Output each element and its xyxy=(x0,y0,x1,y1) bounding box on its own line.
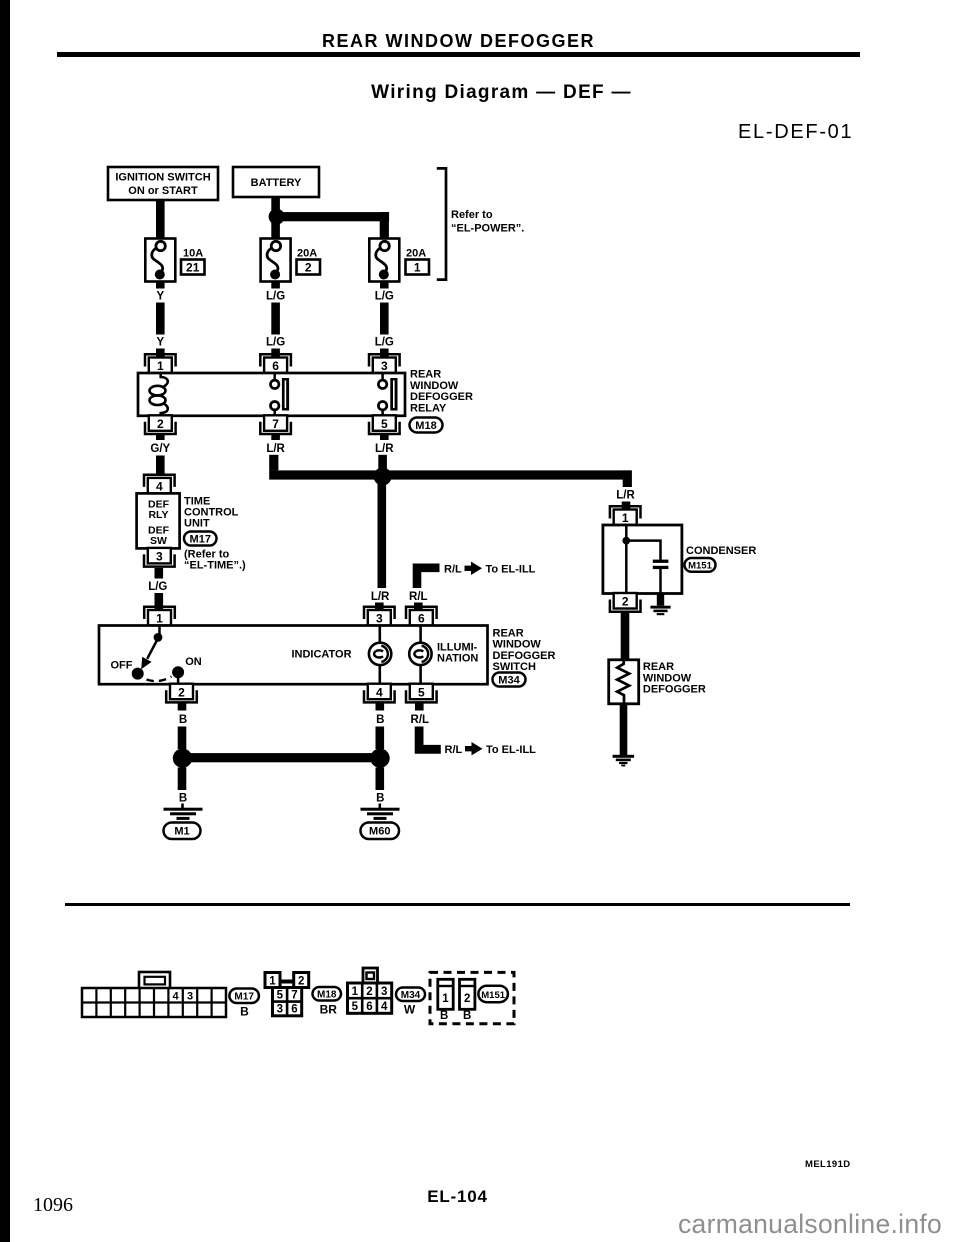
wire B right to junction xyxy=(376,727,385,750)
svg-text:1: 1 xyxy=(442,993,449,1005)
ground condenser xyxy=(650,606,670,615)
svg-text:2: 2 xyxy=(464,993,470,1005)
svg-text:BATTERY: BATTERY xyxy=(251,177,302,189)
wire label G/Y xyxy=(150,443,170,455)
wire label B left xyxy=(179,714,187,726)
illumination lamp xyxy=(409,643,431,665)
svg-text:B: B xyxy=(376,714,384,726)
svg-text:B: B xyxy=(376,793,384,805)
svg-text:3: 3 xyxy=(376,612,383,626)
wire R/L elbow to EL-ILL lower xyxy=(419,727,441,750)
wire elbow down to fuse 1 xyxy=(380,212,389,238)
wire junction left to ground xyxy=(178,768,187,791)
svg-text:RLY: RLY xyxy=(148,509,168,521)
svg-text:UNIT: UNIT xyxy=(184,517,210,529)
svg-text:DEFOGGER: DEFOGGER xyxy=(410,391,473,403)
wire L/R pin7 elbow to bus xyxy=(269,455,278,471)
svg-text:4: 4 xyxy=(173,991,180,1003)
EL-POWER reference bracket xyxy=(437,168,446,279)
wire junction to fuse 2 xyxy=(271,221,280,238)
svg-text:ON: ON xyxy=(185,656,202,668)
wire label L/G lower xyxy=(266,337,285,349)
svg-text:3: 3 xyxy=(156,550,163,564)
svg-text:M18: M18 xyxy=(415,420,436,432)
relay pin 5 xyxy=(369,415,400,434)
wire label L/G right column xyxy=(375,291,394,303)
switch OFF label xyxy=(111,660,133,672)
relay U1 box xyxy=(138,373,405,416)
svg-text:L/R: L/R xyxy=(375,443,394,455)
connector M151 dashed box xyxy=(430,972,514,1023)
ground M1 oval xyxy=(164,823,201,840)
wire fuse2 stub xyxy=(271,282,280,289)
svg-text:2: 2 xyxy=(157,417,164,431)
wire condenser to defogger xyxy=(621,612,630,661)
svg-text:L/R: L/R xyxy=(371,591,390,603)
indicator label xyxy=(291,649,351,661)
wire label B lower left xyxy=(179,793,187,805)
svg-text:WINDOW: WINDOW xyxy=(493,639,542,651)
note refer to EL-POWER xyxy=(451,209,524,235)
svg-text:G/Y: G/Y xyxy=(150,443,170,455)
lamp wire pin6 to pin5 xyxy=(419,626,422,685)
wire TCU pin3 stub xyxy=(155,568,164,579)
svg-text:R/L: R/L xyxy=(411,714,430,726)
svg-text:20A: 20A xyxy=(297,248,317,260)
time control unit box xyxy=(137,493,180,548)
svg-text:“EL-POWER”.: “EL-POWER”. xyxy=(451,223,524,235)
condenser name label xyxy=(686,545,756,557)
switch pin 3 xyxy=(364,607,395,626)
fuse 2 number box xyxy=(297,260,321,275)
svg-text:To EL-ILL: To EL-ILL xyxy=(486,563,536,575)
rear window defogger box xyxy=(609,660,639,704)
svg-text:B: B xyxy=(179,714,187,726)
svg-text:M34: M34 xyxy=(498,674,520,686)
svg-text:L/G: L/G xyxy=(375,291,394,303)
wire R/L elbow to EL-ILL upper xyxy=(417,568,440,588)
wire label L/G battery column xyxy=(266,291,285,303)
wire switch pin2 stub xyxy=(178,704,187,711)
wire fuse1 stub xyxy=(380,282,389,289)
svg-text:1: 1 xyxy=(352,986,359,998)
capacitor ground stub xyxy=(657,594,664,606)
switch pin 5 xyxy=(406,684,437,703)
svg-text:R/L: R/L xyxy=(445,744,463,756)
svg-text:OFF: OFF xyxy=(111,660,133,672)
svg-text:6: 6 xyxy=(418,612,425,626)
connector M17 grid xyxy=(82,972,226,1017)
wire label L/R above switch xyxy=(371,591,390,603)
svg-text:2: 2 xyxy=(622,595,629,609)
svg-text:“EL-TIME”.): “EL-TIME”.) xyxy=(184,560,246,572)
svg-text:2: 2 xyxy=(298,976,304,988)
wire G/Y to TCU pin 4 xyxy=(156,456,165,476)
connector M151 colours B B xyxy=(440,1010,471,1022)
svg-text:6: 6 xyxy=(291,1004,297,1016)
svg-text:3: 3 xyxy=(381,986,387,998)
svg-text:DEFOGGER: DEFOGGER xyxy=(493,650,556,662)
TCU name label xyxy=(184,495,239,529)
svg-text:R/L: R/L xyxy=(444,563,462,575)
condenser capacitor C1 xyxy=(626,541,668,594)
TCU connector M17 oval xyxy=(184,532,217,546)
wire bus elbow to condenser xyxy=(623,470,632,487)
fuse 20A 2 xyxy=(261,239,291,282)
relay pin 2 xyxy=(145,415,176,434)
svg-text:5: 5 xyxy=(418,685,425,699)
footer rule xyxy=(65,903,850,906)
svg-text:ILLUMI-: ILLUMI- xyxy=(437,641,478,653)
svg-text:BR: BR xyxy=(320,1003,338,1017)
connector M17 colour B xyxy=(240,1005,249,1019)
wire B left to junction xyxy=(178,727,187,750)
svg-text:M34: M34 xyxy=(401,990,421,1001)
watermark xyxy=(678,1209,942,1240)
svg-text:2: 2 xyxy=(366,986,372,998)
svg-text:WINDOW: WINDOW xyxy=(643,672,692,684)
svg-text:3: 3 xyxy=(187,991,193,1003)
svg-text:2: 2 xyxy=(305,261,312,275)
svg-text:M151: M151 xyxy=(481,990,505,1001)
condenser pin 1 xyxy=(610,506,641,525)
wire label Y xyxy=(156,291,164,303)
svg-text:Refer to: Refer to xyxy=(451,209,493,221)
relay coil xyxy=(150,372,168,417)
svg-text:IGNITION SWITCH: IGNITION SWITCH xyxy=(115,172,210,184)
switch throw dashes xyxy=(147,677,172,682)
svg-text:4: 4 xyxy=(381,1001,388,1013)
svg-text:B: B xyxy=(240,1005,249,1019)
svg-text:1: 1 xyxy=(269,976,276,988)
wire fuse21 stub xyxy=(156,282,165,289)
wire label B lower right xyxy=(376,793,384,805)
wire battery down xyxy=(271,197,280,212)
page code EL-DEF-01 xyxy=(738,121,853,144)
ground M60 oval xyxy=(361,823,400,840)
note R/L to EL-ILL lower xyxy=(445,742,537,756)
ground M1 xyxy=(164,808,203,820)
folio 1096 xyxy=(33,1194,73,1217)
svg-text:L/G: L/G xyxy=(266,337,285,349)
svg-text:WINDOW: WINDOW xyxy=(410,380,459,392)
connector M18 oval xyxy=(313,987,342,1001)
wire stub into switch pin 3 xyxy=(375,603,384,611)
wire relay pin5 stub xyxy=(380,435,389,441)
illumination label xyxy=(437,641,478,664)
svg-text:7: 7 xyxy=(291,990,297,1002)
wire L/R pin5 to bus xyxy=(378,455,387,475)
svg-text:6: 6 xyxy=(366,1001,372,1013)
wire junction right to ground xyxy=(376,768,385,791)
wire label L/R left xyxy=(266,443,285,455)
svg-text:5: 5 xyxy=(381,417,388,431)
svg-text:CONDENSER: CONDENSER xyxy=(686,545,756,557)
svg-text:1: 1 xyxy=(622,511,629,525)
fuse 21 number box xyxy=(181,260,205,275)
wire label L/G right lower xyxy=(375,337,394,349)
left page edge bar xyxy=(0,0,10,1242)
wire L/G to relay pin 3 xyxy=(380,349,389,359)
svg-text:L/R: L/R xyxy=(266,443,285,455)
fuse 2 label 20A xyxy=(297,248,317,260)
relay pin 7 xyxy=(260,415,291,434)
svg-text:M18: M18 xyxy=(317,990,337,1001)
svg-text:7: 7 xyxy=(272,417,279,431)
connector M151 cavity 2 xyxy=(460,979,475,1009)
svg-text:REAR: REAR xyxy=(493,627,524,639)
wire label B right xyxy=(376,714,384,726)
relay connector M18 oval xyxy=(410,418,443,433)
wire L/G right segment xyxy=(380,303,389,335)
svg-text:NATION: NATION xyxy=(437,653,478,665)
relay pin 3 xyxy=(369,354,400,373)
relay pin 6 xyxy=(260,354,291,373)
ignition switch box xyxy=(108,167,218,200)
node battery junction xyxy=(269,209,285,225)
wire Y segment xyxy=(156,303,165,335)
svg-text:6: 6 xyxy=(272,359,279,373)
svg-text:B: B xyxy=(463,1010,471,1022)
svg-text:3: 3 xyxy=(277,1004,283,1016)
connector M34 colour W xyxy=(404,1003,416,1017)
battery xyxy=(233,167,319,197)
ground bus wire xyxy=(183,753,381,762)
wire junction to right elbow xyxy=(276,212,390,221)
switch pin 6 xyxy=(406,607,437,626)
svg-text:1: 1 xyxy=(156,612,163,626)
svg-text:3: 3 xyxy=(381,359,388,373)
condenser box xyxy=(603,525,682,594)
svg-text:Y: Y xyxy=(156,337,164,349)
wire switch pin4 stub xyxy=(376,704,385,711)
switch ON contact xyxy=(172,666,184,684)
wire label L/R condenser xyxy=(616,490,635,502)
defogger name label xyxy=(643,661,706,696)
connector M34 diagram xyxy=(348,968,392,1013)
wire defogger to ground xyxy=(620,704,628,755)
ground M60 xyxy=(361,808,400,820)
wire stub into condenser pin 1 xyxy=(622,502,631,510)
wire bus junction down to switch xyxy=(378,475,387,588)
connector M17 oval xyxy=(229,989,259,1004)
svg-text:W: W xyxy=(404,1003,416,1017)
page number EL-104 xyxy=(390,1187,525,1207)
wire L/G to relay pin 6 xyxy=(271,349,280,359)
connector M18 colour BR xyxy=(320,1003,338,1017)
wire L/G segment xyxy=(271,303,280,335)
connector M151 cavity 1 xyxy=(438,979,453,1009)
svg-text:DEFOGGER: DEFOGGER xyxy=(643,684,706,696)
relay contact pins 6-7 xyxy=(271,373,290,416)
svg-text:REAR: REAR xyxy=(410,369,441,381)
svg-text:Y: Y xyxy=(156,291,164,303)
wire stub to ground M1 xyxy=(181,804,184,809)
node ground junction right xyxy=(370,749,389,768)
svg-text:L/R: L/R xyxy=(616,490,635,502)
note refer to EL-TIME xyxy=(184,549,246,572)
switch name label xyxy=(493,627,556,673)
svg-text:R/L: R/L xyxy=(409,591,428,603)
svg-text:5: 5 xyxy=(352,1001,359,1013)
svg-text:4: 4 xyxy=(156,480,163,494)
wire label R/L lower xyxy=(411,714,430,726)
wire switch pin5 stub xyxy=(415,704,424,711)
condenser internal wire xyxy=(625,525,628,594)
defogger resistor zigzag xyxy=(617,660,629,704)
title rule xyxy=(57,52,860,57)
condenser pin 2 xyxy=(610,593,641,612)
fuse 10A 21 xyxy=(145,239,175,282)
node L/R bus junction xyxy=(374,468,392,486)
svg-text:ON or START: ON or START xyxy=(128,185,198,197)
svg-text:L/G: L/G xyxy=(375,337,394,349)
svg-text:M17: M17 xyxy=(190,533,211,545)
relay name label xyxy=(410,369,473,415)
ground defogger xyxy=(613,755,635,767)
switch pivot and arm xyxy=(141,626,162,670)
svg-text:5: 5 xyxy=(277,990,284,1002)
svg-text:M1: M1 xyxy=(174,826,189,838)
fuse 1 number box xyxy=(406,260,430,275)
svg-text:RELAY: RELAY xyxy=(410,402,447,414)
wire label L/G switch xyxy=(148,581,167,593)
connector M34 oval xyxy=(396,988,425,1002)
svg-text:20A: 20A xyxy=(406,248,426,260)
switch pin 2 xyxy=(166,684,197,703)
switch pin 4 xyxy=(364,684,395,703)
relay contact pins 3-5 xyxy=(378,373,397,416)
switch ON label xyxy=(185,656,202,668)
svg-text:10A: 10A xyxy=(183,248,203,260)
condenser M151 oval xyxy=(685,558,716,572)
defogger switch box xyxy=(99,626,488,685)
switch OFF contact xyxy=(132,668,144,680)
node ground junction left xyxy=(173,749,192,768)
fuse 21 label 10A xyxy=(183,248,203,260)
svg-text:B: B xyxy=(179,793,187,805)
svg-text:To EL-ILL: To EL-ILL xyxy=(486,744,536,756)
svg-text:21: 21 xyxy=(186,261,200,275)
svg-text:2: 2 xyxy=(178,685,185,699)
wire stub to ground M60 xyxy=(378,804,381,809)
lamp wire pin3 to pin4 xyxy=(378,626,381,685)
svg-text:4: 4 xyxy=(376,685,383,699)
node condenser junction xyxy=(622,537,630,545)
bus wire L/R horizontal xyxy=(269,470,631,479)
svg-text:1: 1 xyxy=(157,359,164,373)
TCU pin 3 xyxy=(144,548,175,567)
indicator lamp xyxy=(369,643,391,665)
TCU pin 4 xyxy=(144,475,175,494)
wire Y to relay pin 1 xyxy=(156,349,165,359)
fuse 20A 1 xyxy=(369,239,399,282)
svg-text:L/G: L/G xyxy=(266,291,285,303)
svg-text:SW: SW xyxy=(150,535,167,547)
wire L/G into switch pin 1 xyxy=(155,593,164,610)
wire relay pin2 stub xyxy=(156,435,165,441)
relay pin 1 xyxy=(145,354,176,373)
wire relay pin7 stub xyxy=(271,435,280,441)
svg-text:M60: M60 xyxy=(369,826,390,838)
connector M151 oval xyxy=(478,986,508,1003)
wire ignition to fuse 21 xyxy=(156,200,165,239)
svg-text:B: B xyxy=(440,1010,448,1022)
wire label R/L upper xyxy=(409,591,428,603)
drawing number MEL191D xyxy=(805,1159,851,1170)
note R/L to EL-ILL upper xyxy=(444,562,536,576)
page title xyxy=(57,31,860,52)
svg-text:M151: M151 xyxy=(688,561,712,572)
svg-text:L/G: L/G xyxy=(148,581,167,593)
svg-text:REAR: REAR xyxy=(643,661,674,673)
svg-text:1: 1 xyxy=(414,261,421,275)
wire label Y lower xyxy=(156,337,164,349)
svg-text:M17: M17 xyxy=(234,992,254,1003)
diagram subtitle xyxy=(100,82,903,104)
svg-text:INDICATOR: INDICATOR xyxy=(291,649,351,661)
wire label L/R mid xyxy=(375,443,394,455)
wire stub into switch pin 6 xyxy=(414,603,423,611)
switch pin 1 xyxy=(144,607,175,626)
connector M18 diagram xyxy=(265,973,309,1016)
fuse 1 label 20A xyxy=(406,248,426,260)
switch connector M34 oval xyxy=(493,673,526,687)
